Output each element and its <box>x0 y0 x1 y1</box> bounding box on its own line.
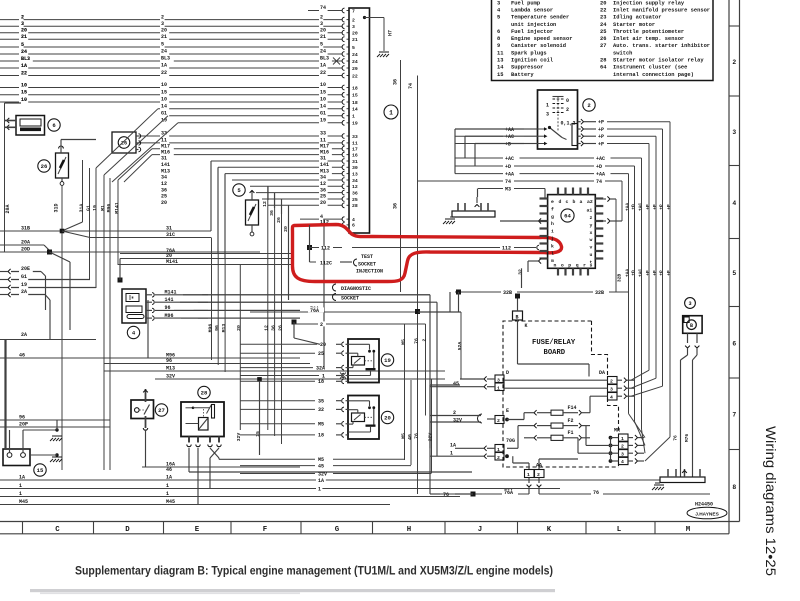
svg-text:2: 2 <box>497 455 500 461</box>
svg-text:12: 12 <box>352 184 358 190</box>
svg-text:112C: 112C <box>320 260 332 266</box>
svg-text:M5: M5 <box>318 422 324 428</box>
svg-text:20: 20 <box>236 325 242 331</box>
svg-text:46: 46 <box>407 434 413 440</box>
svg-text:25: 25 <box>161 194 167 200</box>
svg-text:M96: M96 <box>207 324 213 333</box>
svg-text:2: 2 <box>610 379 613 385</box>
svg-text:+AA: +AA <box>505 127 514 133</box>
svg-text:20: 20 <box>600 0 606 6</box>
svg-text:Suppressor: Suppressor <box>511 65 543 71</box>
svg-text:u: u <box>590 253 593 258</box>
svg-text:32B: 32B <box>595 290 604 296</box>
svg-text:M1: M1 <box>100 205 106 211</box>
svg-text:10: 10 <box>320 82 326 88</box>
svg-text:4: 4 <box>610 395 613 401</box>
svg-text:F14: F14 <box>568 405 577 411</box>
svg-text:M45: M45 <box>166 499 175 505</box>
svg-text:Supplementary diagram B: Typi: Supplementary diagram B: Typical engine … <box>75 564 553 578</box>
svg-text:14: 14 <box>320 103 326 109</box>
svg-text:M76: M76 <box>684 434 690 443</box>
svg-text:35: 35 <box>318 399 324 405</box>
svg-text:32: 32 <box>318 407 324 413</box>
svg-text:i: i <box>551 229 554 235</box>
svg-text:G1: G1 <box>85 205 91 211</box>
svg-text:2: 2 <box>733 59 737 66</box>
svg-text:+D: +D <box>631 204 637 210</box>
svg-text:34: 34 <box>352 178 358 184</box>
svg-text:20A: 20A <box>5 204 11 213</box>
svg-text:4: 4 <box>621 459 624 465</box>
svg-text:2: 2 <box>422 338 428 341</box>
svg-text:19: 19 <box>320 118 326 124</box>
svg-text:36: 36 <box>161 187 167 193</box>
svg-text:27: 27 <box>600 43 606 49</box>
svg-text:3: 3 <box>161 21 164 27</box>
svg-text:+AC: +AC <box>638 269 644 278</box>
svg-text:20: 20 <box>352 31 358 37</box>
svg-text:B: B <box>690 323 693 329</box>
svg-text:3: 3 <box>352 24 355 30</box>
svg-text:5: 5 <box>497 15 500 21</box>
svg-text:26: 26 <box>600 36 606 42</box>
svg-text:H: H <box>407 526 411 534</box>
svg-text:20: 20 <box>320 342 326 348</box>
svg-text:0: 0 <box>566 98 569 104</box>
svg-text:12: 12 <box>161 181 167 187</box>
svg-text:+AC: +AC <box>596 156 605 162</box>
svg-text:+P: +P <box>652 270 658 276</box>
svg-text:r: r <box>583 264 586 269</box>
svg-text:74: 74 <box>596 179 602 185</box>
svg-text:22: 22 <box>600 7 606 13</box>
svg-text:Injection supply relay: Injection supply relay <box>613 0 685 6</box>
svg-text:46: 46 <box>19 353 25 359</box>
svg-text:SOCKET: SOCKET <box>341 296 359 302</box>
svg-text:26: 26 <box>277 325 283 331</box>
svg-text:G1: G1 <box>161 110 167 116</box>
svg-text:8: 8 <box>733 484 737 491</box>
svg-text:+P: +P <box>666 204 672 210</box>
svg-text:M5: M5 <box>401 339 407 345</box>
svg-text:+P: +P <box>666 270 672 276</box>
svg-text:switch: switch <box>613 50 632 56</box>
svg-text:1: 1 <box>166 483 169 489</box>
svg-text:18: 18 <box>318 379 324 385</box>
svg-text:21: 21 <box>320 34 326 40</box>
svg-text:28: 28 <box>600 58 606 64</box>
svg-text:18: 18 <box>318 433 324 439</box>
svg-text:19: 19 <box>352 121 358 127</box>
svg-text:31D: 31D <box>54 203 60 212</box>
svg-text:2: 2 <box>537 472 540 478</box>
svg-text:31: 31 <box>166 226 172 232</box>
svg-text:M45: M45 <box>19 499 28 505</box>
svg-text:2: 2 <box>320 14 323 20</box>
svg-text:M141: M141 <box>165 290 177 296</box>
svg-text:1: 1 <box>166 491 169 497</box>
svg-text:36: 36 <box>320 187 326 193</box>
svg-text:1: 1 <box>621 436 624 442</box>
svg-text:Fuel injector: Fuel injector <box>511 29 553 35</box>
svg-text:24: 24 <box>352 59 358 65</box>
svg-text:+P: +P <box>659 270 665 276</box>
svg-text:3: 3 <box>21 21 24 27</box>
svg-text:5: 5 <box>161 42 164 48</box>
svg-text:14: 14 <box>497 65 504 71</box>
svg-text:+P: +P <box>645 270 651 276</box>
svg-text:2: 2 <box>21 14 24 20</box>
svg-text:23: 23 <box>600 15 606 21</box>
svg-text:BL3: BL3 <box>21 56 30 62</box>
svg-text:28: 28 <box>201 390 208 397</box>
svg-text:14: 14 <box>161 103 167 109</box>
svg-text:+P: +P <box>598 134 604 140</box>
svg-text:Throttle potentiometer: Throttle potentiometer <box>613 29 684 35</box>
svg-text:70G: 70G <box>506 438 515 444</box>
svg-text:3: 3 <box>610 387 613 393</box>
svg-text:5: 5 <box>352 45 355 51</box>
svg-text:20D: 20D <box>21 247 30 253</box>
svg-text:13: 13 <box>497 58 503 64</box>
svg-text:+D: +D <box>505 164 511 170</box>
svg-text:20: 20 <box>384 415 391 422</box>
svg-text:36: 36 <box>270 325 276 331</box>
svg-text:76: 76 <box>414 433 420 439</box>
svg-text:10: 10 <box>161 82 167 88</box>
svg-text:Inlet air temp. sensor: Inlet air temp. sensor <box>613 36 684 42</box>
svg-text:31: 31 <box>161 156 167 162</box>
svg-text:74: 74 <box>408 83 414 89</box>
svg-text:24: 24 <box>352 52 358 58</box>
svg-text:9: 9 <box>497 43 500 49</box>
svg-text:6: 6 <box>352 223 355 229</box>
svg-text:M16: M16 <box>320 149 329 155</box>
svg-text:4: 4 <box>733 200 737 207</box>
svg-text:22: 22 <box>161 70 167 76</box>
svg-text:30: 30 <box>352 165 358 171</box>
svg-text:a: a <box>580 200 583 205</box>
svg-text:Canister solenoid: Canister solenoid <box>511 43 566 49</box>
svg-text:+AC: +AC <box>505 156 514 162</box>
svg-text:Temperature sender: Temperature sender <box>511 15 569 21</box>
svg-text:M13: M13 <box>161 168 170 174</box>
svg-text:+D: +D <box>596 164 602 170</box>
svg-text:2: 2 <box>497 418 500 424</box>
svg-text:SOCKET: SOCKET <box>358 261 376 267</box>
svg-text:1: 1 <box>497 385 500 391</box>
svg-text:24: 24 <box>320 49 326 55</box>
svg-text:52A: 52A <box>457 342 463 351</box>
svg-text:1: 1 <box>497 447 500 453</box>
svg-text:32: 32 <box>518 269 524 275</box>
svg-text:34: 34 <box>161 175 167 181</box>
svg-text:a2: a2 <box>587 199 593 205</box>
svg-text:7: 7 <box>733 412 737 419</box>
svg-text:10: 10 <box>21 82 27 88</box>
svg-text:G1: G1 <box>21 274 27 280</box>
svg-text:f: f <box>551 206 554 212</box>
svg-text:FUSE/RELAY: FUSE/RELAY <box>532 339 576 347</box>
svg-text:MR: MR <box>614 428 620 434</box>
svg-text:J: J <box>478 526 482 534</box>
svg-text:11: 11 <box>352 141 358 147</box>
svg-text:E: E <box>506 408 509 414</box>
svg-text:M141: M141 <box>166 259 178 265</box>
svg-text:D: D <box>125 526 130 534</box>
svg-text:Starter motor isolator relay: Starter motor isolator relay <box>613 58 704 64</box>
svg-text:+AA: +AA <box>505 171 514 177</box>
svg-text:33: 33 <box>352 134 358 140</box>
svg-text:BL3: BL3 <box>320 56 329 62</box>
svg-text:q: q <box>576 264 579 269</box>
svg-text:Inlet manifold pressure sensor: Inlet manifold pressure sensor <box>613 7 710 13</box>
svg-text:M13: M13 <box>221 324 227 333</box>
svg-text:10: 10 <box>320 97 326 103</box>
svg-text:2: 2 <box>352 17 355 23</box>
svg-text:15: 15 <box>352 93 358 99</box>
svg-text:31A: 31A <box>78 204 84 213</box>
svg-text:DIAGNOSTIC: DIAGNOSTIC <box>341 286 371 292</box>
svg-text:32A: 32A <box>316 365 325 371</box>
svg-text:21: 21 <box>21 34 27 40</box>
svg-text:E: E <box>195 526 200 534</box>
svg-text:H7: H7 <box>388 30 394 36</box>
svg-text:31B: 31B <box>21 226 30 232</box>
svg-text:1A: 1A <box>161 63 167 69</box>
svg-text:15: 15 <box>320 90 326 96</box>
svg-text:F1: F1 <box>568 430 574 436</box>
svg-text:INJECTION: INJECTION <box>356 269 383 275</box>
svg-text:32V: 32V <box>453 418 462 424</box>
svg-text:3: 3 <box>733 129 737 136</box>
svg-text:l: l <box>551 251 554 257</box>
svg-text:+AC: +AC <box>505 134 514 140</box>
svg-text:25: 25 <box>600 29 606 35</box>
svg-text:15: 15 <box>161 90 167 96</box>
svg-text:1: 1 <box>527 472 530 478</box>
svg-text:32V: 32V <box>318 471 327 477</box>
svg-text:10: 10 <box>161 97 167 103</box>
svg-text:y: y <box>590 223 593 228</box>
svg-text:+P: +P <box>645 204 651 210</box>
svg-text:M96: M96 <box>165 313 174 319</box>
svg-text:32B: 32B <box>617 274 623 283</box>
svg-text:+P: +P <box>598 120 604 126</box>
svg-text:K: K <box>547 526 552 534</box>
svg-text:22: 22 <box>320 70 326 76</box>
svg-text:a1: a1 <box>587 208 593 214</box>
svg-text:M16: M16 <box>161 149 170 155</box>
svg-text:17: 17 <box>352 147 358 153</box>
svg-text:1A: 1A <box>320 63 326 69</box>
svg-text:1: 1 <box>352 114 355 120</box>
svg-text:M3: M3 <box>505 186 511 192</box>
svg-text:Wiring diagrams 12•25: Wiring diagrams 12•25 <box>763 426 778 576</box>
svg-text:Instrument cluster (see: Instrument cluster (see <box>613 65 687 71</box>
svg-text:Lambda sensor: Lambda sensor <box>511 7 553 13</box>
svg-text:20: 20 <box>161 200 167 206</box>
svg-text:18: 18 <box>352 85 358 91</box>
svg-text:10: 10 <box>21 97 27 103</box>
svg-text:x: x <box>590 231 593 236</box>
svg-text:24: 24 <box>161 49 167 55</box>
svg-text:2: 2 <box>453 410 456 416</box>
svg-text:d: d <box>559 199 562 205</box>
svg-text:L: L <box>617 526 622 534</box>
svg-text:26: 26 <box>41 163 48 170</box>
svg-text:1: 1 <box>389 109 393 116</box>
svg-text:96: 96 <box>19 415 25 421</box>
svg-text:36: 36 <box>393 79 399 85</box>
svg-text:+P: +P <box>659 204 665 210</box>
svg-text:3: 3 <box>688 301 691 307</box>
svg-text:3: 3 <box>497 377 500 383</box>
svg-text:76: 76 <box>673 435 679 441</box>
svg-text:27: 27 <box>158 407 165 414</box>
svg-text:96: 96 <box>165 305 171 311</box>
svg-text:5: 5 <box>320 42 323 48</box>
svg-text:Starter motor: Starter motor <box>613 22 655 28</box>
svg-text:13: 13 <box>352 171 358 177</box>
svg-text:76: 76 <box>593 490 599 496</box>
svg-text:G: G <box>335 526 340 534</box>
svg-text:2A: 2A <box>21 289 27 295</box>
svg-text:112: 112 <box>502 245 511 251</box>
svg-text:+P: +P <box>598 127 604 133</box>
svg-text:3: 3 <box>497 0 500 6</box>
svg-text:4: 4 <box>352 217 355 223</box>
svg-text:20E: 20E <box>21 266 30 272</box>
svg-text:B: B <box>516 315 519 321</box>
svg-text:g: g <box>551 215 554 220</box>
svg-text:20: 20 <box>161 27 167 33</box>
svg-text:j: j <box>551 236 554 242</box>
svg-text:76A: 76A <box>310 308 319 314</box>
svg-text:64: 64 <box>564 213 571 220</box>
svg-text:unit injection: unit injection <box>511 22 556 28</box>
svg-text:96: 96 <box>214 325 220 331</box>
svg-text:3: 3 <box>546 112 549 118</box>
svg-text:1A: 1A <box>21 63 27 69</box>
svg-text:C: C <box>55 526 60 534</box>
svg-text:+P: +P <box>598 141 604 147</box>
svg-text:2: 2 <box>320 322 323 328</box>
svg-text:Ignition coil: Ignition coil <box>511 58 554 64</box>
svg-text:e: e <box>551 200 554 205</box>
svg-text:15: 15 <box>255 431 261 437</box>
svg-text:Fuel pump: Fuel pump <box>511 0 540 6</box>
svg-text:19: 19 <box>384 357 391 364</box>
svg-text:internal connection page): internal connection page) <box>613 72 694 78</box>
svg-text:15: 15 <box>37 467 44 474</box>
svg-text:74: 74 <box>505 179 511 185</box>
svg-text:p: p <box>568 264 571 269</box>
svg-text:3: 3 <box>320 21 323 27</box>
svg-text:31: 31 <box>320 156 326 162</box>
svg-text:M13: M13 <box>166 366 175 372</box>
svg-text:Spark plugs: Spark plugs <box>511 50 547 56</box>
svg-text:1: 1 <box>19 483 22 489</box>
svg-text:c: c <box>566 200 569 205</box>
svg-text:1: 1 <box>19 491 22 497</box>
svg-text:b: b <box>573 199 576 205</box>
svg-text:24: 24 <box>600 22 607 28</box>
svg-text:76A: 76A <box>504 490 513 496</box>
svg-text:J.HAYNES: J.HAYNES <box>695 511 719 517</box>
svg-text:+P: +P <box>652 204 658 210</box>
svg-text:Idling actuator: Idling actuator <box>613 15 662 21</box>
svg-text:2: 2 <box>566 107 569 113</box>
svg-text:v: v <box>590 246 593 251</box>
svg-text:s: s <box>590 264 593 269</box>
svg-text:18: 18 <box>352 100 358 106</box>
svg-text:25: 25 <box>320 194 326 200</box>
svg-text:2: 2 <box>161 14 164 20</box>
svg-text:BL3: BL3 <box>161 56 170 62</box>
svg-text:15: 15 <box>21 90 27 96</box>
svg-text:M96: M96 <box>106 204 112 213</box>
svg-text:19: 19 <box>161 118 167 124</box>
svg-text:K: K <box>525 323 528 329</box>
svg-text:1: 1 <box>546 103 549 109</box>
svg-text:+AA: +AA <box>596 171 605 177</box>
svg-text:12: 12 <box>264 325 270 331</box>
svg-text:n: n <box>554 264 557 269</box>
svg-text:28: 28 <box>352 203 358 209</box>
svg-text:19: 19 <box>21 282 27 288</box>
svg-text:1: 1 <box>318 486 321 492</box>
svg-text:33: 33 <box>320 131 326 137</box>
svg-text:M5: M5 <box>318 457 324 463</box>
svg-text:29: 29 <box>352 66 358 72</box>
svg-text:46: 46 <box>166 467 172 473</box>
svg-text:15: 15 <box>497 72 503 78</box>
svg-text:20: 20 <box>320 200 326 206</box>
svg-text:5: 5 <box>733 270 737 277</box>
svg-text:w: w <box>590 238 593 243</box>
svg-text:M13: M13 <box>320 168 329 174</box>
svg-text:96: 96 <box>166 358 172 364</box>
svg-text:1: 1 <box>450 450 453 456</box>
svg-text:D: D <box>506 370 509 376</box>
svg-text:20: 20 <box>320 27 326 33</box>
svg-text:6: 6 <box>497 29 500 35</box>
svg-text:19: 19 <box>92 205 98 211</box>
svg-text:6: 6 <box>733 341 737 348</box>
svg-text:2: 2 <box>621 444 624 450</box>
svg-text:1A: 1A <box>19 475 25 481</box>
svg-text:34: 34 <box>320 175 326 181</box>
svg-text:1A: 1A <box>450 443 456 449</box>
svg-text:141: 141 <box>161 162 170 168</box>
svg-text:+AA: +AA <box>625 203 631 212</box>
svg-text:5: 5 <box>21 42 24 48</box>
svg-text:F2: F2 <box>568 418 574 424</box>
svg-text:76: 76 <box>414 338 420 344</box>
svg-text:M: M <box>686 526 691 534</box>
svg-text:36: 36 <box>393 203 399 209</box>
svg-text:16: 16 <box>352 152 358 158</box>
svg-text:Auto. trans. starter inhibitor: Auto. trans. starter inhibitor <box>613 43 710 49</box>
svg-text:1A: 1A <box>318 478 324 484</box>
svg-text:M5: M5 <box>401 433 407 439</box>
svg-text:11: 11 <box>497 50 503 56</box>
svg-text:25: 25 <box>352 197 358 203</box>
svg-text:24: 24 <box>21 49 27 55</box>
svg-text:1A: 1A <box>166 475 172 481</box>
svg-text:z: z <box>590 216 593 221</box>
